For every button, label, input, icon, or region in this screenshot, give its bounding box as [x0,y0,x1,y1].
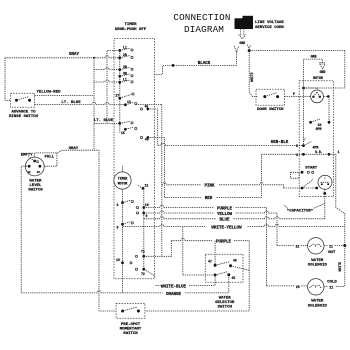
svg-text:12: 12 [145,183,149,187]
svg-text:46: 46 [145,138,149,142]
timer right rail [143,188,145,269]
wire WHITE drop to door switch [249,51,258,97]
svg-text:BLACK: BLACK [198,62,211,66]
svg-text:27: 27 [116,93,120,97]
wire hot solenoid right lead 21 [324,245,345,247]
contact 27 [116,93,135,100]
wire RED [164,154,261,197]
water solenoid hot L2 [308,238,324,254]
wire 46 to red riser [148,138,165,198]
drive motor box [299,81,333,197]
svg-text:PRE-SPOT: PRE-SPOT [121,323,141,327]
wire WHITE-BLUE [155,284,215,286]
wire lt blue 2 [94,122,120,124]
svg-text:9: 9 [146,214,148,218]
svg-text:63: 63 [318,123,322,127]
svg-text:FULL: FULL [44,155,54,159]
svg-text:20: 20 [296,285,300,289]
svg-text:WATER: WATER [311,300,324,304]
contact 72 [135,268,155,276]
wire protector leads [304,88,330,146]
wire motor right rail [328,96,330,122]
wire 13 row to pink riser [136,104,162,256]
svg-text:SOLENOID: SOLENOID [308,264,328,268]
svg-text:15: 15 [121,131,125,135]
motor protector circle [311,90,324,103]
motor left tab [291,172,300,178]
wire ORANGE [21,291,229,293]
svg-text:GEN-BLK: GEN-BLK [271,141,289,145]
contact row 129 [121,127,137,135]
svg-text:3: 3 [296,153,298,157]
svg-text:YELLOW: YELLOW [217,213,233,217]
wire PINK [162,183,284,189]
main motor M1 [318,175,332,189]
svg-text:SOLENOID: SOLENOID [308,304,328,308]
node motor box top junction [302,87,305,90]
svg-text:72: 72 [141,272,145,276]
svg-text:22: 22 [295,244,299,248]
wire water level left lead down [21,166,29,293]
svg-text:45: 45 [232,276,236,280]
svg-text:WATER: WATER [29,179,42,183]
contact L1 [118,46,133,52]
svg-text:SELECTOR: SELECTOR [215,301,235,305]
timer box T1 [114,39,155,279]
svg-text:PINK: PINK [204,184,215,188]
start contact [301,171,304,174]
svg-text:2B: 2B [123,53,127,57]
svg-text:DIAGRAM: DIAGRAM [184,24,224,35]
wire gray bus v3 [93,58,95,150]
contact 8 [117,222,134,230]
svg-text:13: 13 [127,100,131,104]
wire yellow-red [35,68,120,96]
water selector switch S2 [205,254,243,282]
contact 10 purple [136,203,148,209]
node L1 cord junction [248,49,251,52]
wire black horizontal [155,65,237,74]
svg-text:HOT: HOT [328,251,336,255]
svg-text:5: 5 [296,144,298,148]
svg-text:21: 21 [329,286,333,290]
svg-text:ADVANCE TO: ADVANCE TO [11,110,36,114]
svg-text:LINE VOLTAGE: LINE VOLTAGE [255,21,284,25]
wire motor bottom terminals [284,187,317,189]
node gray bus junctions [93,57,95,59]
wire full lever riser [40,153,57,166]
timer mid rail [122,203,124,293]
svg-text:MOTOR: MOTOR [313,76,323,80]
svg-text:DOOR SWITCH: DOOR SWITCH [257,108,284,112]
node terminal 3 [302,153,305,156]
line voltage service cord plug [235,18,254,29]
wire cold solenoid left lead 20 [267,285,308,287]
svg-text:71: 71 [141,250,145,254]
contact 13 [124,100,137,106]
wire YELLOW [144,211,277,246]
svg-text:4PM: 4PM [313,146,319,150]
contact 46 [140,136,149,142]
door switch DS1 [256,89,285,105]
wire PURPLE2 riser [144,241,172,257]
wire GRAY to water level [35,150,94,161]
wire timer motor leads [122,165,124,203]
wire door switch to motor [285,96,311,98]
node protector right junction [327,95,330,98]
wire top service line to right edge [249,50,345,52]
wire BLUE [144,217,325,219]
wire GRAY top [5,56,120,58]
wire gray2 drop to pre-spot [94,150,116,311]
svg-text:WHITE: WHITE [338,262,342,272]
wire feeder row L1 [94,80,120,82]
wire left edge down [5,58,11,101]
wire cold solenoid right lead 21 [324,286,328,288]
contact 2B [118,65,133,71]
wire PURPLE2 [145,239,249,311]
wire motor 1 lead to right [329,154,345,245]
capacitor lead [323,192,326,195]
svg-text:L1: L1 [123,46,127,50]
svg-text:SWITCH: SWITCH [123,332,138,336]
cord strain prong right [247,45,251,49]
contact 15 [118,121,133,125]
ground symbol below plug [239,29,246,39]
wire white-yellow drop to selector [183,227,214,276]
svg-text:*CAPACITOR*: *CAPACITOR* [287,208,313,213]
svg-text:GND: GND [320,70,326,74]
wire gen-blk terminal 5 [158,143,302,145]
wire BLACK riser from cord [236,52,238,65]
wire selector bottom-right drop [228,275,230,293]
wire blue riser to selector 47 [214,241,216,266]
svg-text:YELLOW-RED: YELLOW-RED [36,91,61,95]
svg-text:6PM: 6PM [316,127,322,131]
contact L1 row5 [118,78,133,84]
wire right edge down to motor box [304,51,345,88]
ground symbol motor [319,63,325,69]
svg-text:ORANGE: ORANGE [166,293,182,297]
svg-text:WHITE: WHITE [250,72,254,82]
svg-text:RED: RED [205,197,213,201]
svg-text:LT. BLUE: LT. BLUE [94,119,114,123]
svg-text:45: 45 [145,105,149,109]
node white junction [343,244,346,247]
contact 2B top [118,53,133,59]
speed contact lower [304,138,312,145]
contact 45 [140,105,149,111]
node terminal 5 [302,144,305,147]
wire 46 diagonal to purple2 drop [231,266,250,271]
wire lt blue 1 [35,103,126,105]
svg-text:WHITE-BLUE: WHITE-BLUE [161,285,187,289]
svg-text:PURPLE: PURPLE [216,241,232,245]
svg-text:COLD: COLD [327,280,337,284]
svg-text:TIMER: TIMER [118,177,128,181]
svg-text:21: 21 [329,244,333,248]
svg-text:TIMER: TIMER [124,23,137,27]
svg-text:GND: GND [239,41,245,45]
svg-text:SWITCH: SWITCH [28,189,43,193]
svg-text:BLUE: BLUE [219,219,230,223]
water level switch S4 [25,157,44,176]
svg-text:19: 19 [116,258,120,262]
svg-text:WHITE-YELLOW: WHITE-YELLOW [211,226,242,230]
contact 12 [137,183,148,189]
svg-text:GRAY: GRAY [69,147,79,151]
node black junction [172,64,175,67]
water solenoid cold L3 [308,279,324,295]
contact 71 [135,250,145,258]
svg-text:SWITCH: SWITCH [217,306,232,310]
svg-text:WATER: WATER [219,296,232,300]
svg-text:RINSE SWITCH: RINSE SWITCH [9,115,38,119]
svg-text:CONNECTION: CONNECTION [173,12,230,23]
wire 45 riser to gen-blk [148,109,158,146]
svg-text:8: 8 [117,225,119,229]
wire white down right edge [335,246,345,287]
svg-text:1: 1 [338,150,340,154]
svg-text:MOTOR: MOTOR [118,181,128,185]
contact 19 [116,258,132,264]
wire hot solenoid left lead 22 [277,245,308,247]
svg-text:LEVEL: LEVEL [29,184,42,188]
contact 6 [117,200,134,207]
svg-text:MOMENTARY: MOMENTARY [120,328,142,332]
svg-text:SERVICE CORD: SERVICE CORD [255,26,284,30]
svg-text:PURPLE: PURPLE [217,207,233,211]
svg-text:6: 6 [117,203,119,207]
svg-text:EMPTY: EMPTY [21,153,34,157]
svg-text:GRAY: GRAY [69,53,80,57]
svg-text:10: 10 [145,203,149,207]
advance to rinse switch S1 [11,93,35,107]
svg-text:3B: 3B [123,71,127,75]
contact 3B [118,71,133,77]
cord strain prong left [234,46,239,52]
wire terminal 3 [262,153,330,155]
wire selector bottom-left drop [214,275,216,285]
svg-text:KNOB-PUSH OFF: KNOB-PUSH OFF [115,28,147,32]
svg-text:47: 47 [208,260,212,264]
timer left contact column [119,50,121,132]
speed contact upper [309,121,312,124]
svg-text:START: START [305,167,318,171]
wire WHITE-YELLOW [123,224,345,226]
contact 9 yellow [136,212,147,218]
pre-spot momentary switch S3 [116,303,145,318]
wire bus v4 to pre-spot [107,50,120,123]
svg-text:46: 46 [233,258,237,262]
svg-text:2B: 2B [123,65,127,69]
svg-text:GRN: GRN [311,54,317,58]
svg-text:S.B.: S.B. [315,150,323,154]
timer motor M2 [114,172,131,189]
svg-text:P: P [293,92,295,96]
svg-text:WATER: WATER [311,259,324,263]
wire GRN riser to motor ground [304,59,323,88]
svg-text:L1: L1 [123,78,127,82]
wire PURPLE [144,205,267,285]
